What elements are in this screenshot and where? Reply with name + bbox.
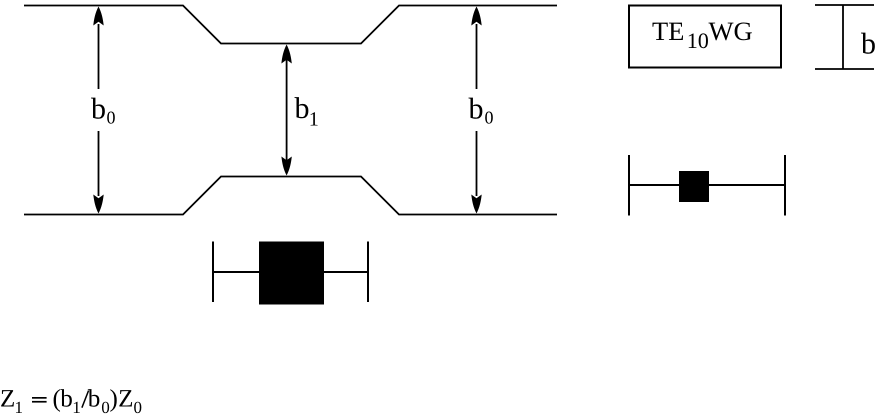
arrowhead up: [93, 7, 103, 26]
label b0 right: letter b: [469, 98, 483, 119]
wire right: [324, 271, 368, 273]
arrowhead down: [93, 195, 103, 214]
wire bottom waveguide wall profile: [24, 177, 557, 215]
equation glyph Z (Z0): [119, 390, 132, 406]
equation glyph b (denominator): [88, 389, 100, 407]
wire left: [213, 271, 259, 273]
arrowhead down: [471, 195, 481, 214]
series element black box small: [679, 171, 709, 202]
arrowhead down: [281, 157, 291, 176]
top wall tick: [815, 4, 874, 6]
terminal bar right: [784, 155, 786, 216]
bottom wall tick: [815, 68, 874, 70]
wire left: [629, 184, 679, 186]
arrowhead up: [471, 7, 481, 26]
label b (height): [861, 33, 875, 54]
arrow shaft lower segment: [98, 131, 100, 196]
wire top waveguide wall profile: [24, 6, 557, 44]
equation subscript 0 (denominator): [102, 402, 109, 413]
arrow shaft upper segment: [98, 24, 100, 89]
label TE10WG: subscript 10: [689, 33, 708, 48]
dimension arrow b1 middle: [281, 45, 291, 176]
label TE10WG: letters WG: [709, 22, 752, 40]
height line b: [842, 5, 844, 69]
terminal bar left: [628, 155, 630, 216]
label b1: subscript 1: [311, 112, 318, 125]
equation Z1 = (b1/b0)Z0: [1, 389, 141, 413]
arrow shaft upper segment: [476, 24, 478, 89]
terminal bar right: [367, 242, 369, 303]
terminal bar left: [212, 242, 214, 303]
arrow shaft: [286, 58, 288, 162]
equation division slash: [82, 391, 89, 408]
TE10 WG box: [629, 6, 781, 68]
label b0 left: letter b: [91, 98, 105, 119]
wire right: [709, 184, 785, 186]
equivalent-circuit element 1 (series block) below profile: [213, 242, 368, 305]
equation glyph Z: [1, 390, 14, 406]
dimension arrow b0 left: [93, 7, 103, 214]
equation close parenthesis: [110, 389, 116, 412]
label b0 right: subscript 0: [485, 112, 493, 124]
equation equals sign: [32, 397, 47, 399]
label b0 left: subscript 0: [107, 112, 115, 124]
dimension arrow b0 right: [471, 7, 481, 214]
equation subscript 0 (Z0): [134, 402, 141, 413]
label TE10WG: letters TE: [652, 23, 683, 40]
equation subscript 1 (numerator): [74, 402, 80, 413]
equation glyph b (numerator): [60, 389, 72, 407]
arrow shaft lower segment: [476, 131, 478, 196]
equation open parenthesis: [54, 389, 60, 412]
equation subscript 1: [16, 402, 22, 413]
series element black box: [259, 242, 324, 305]
label b1: letter b: [295, 97, 309, 118]
waveguide height symbol (I-beam) right edge: [815, 5, 874, 69]
equivalent-circuit element 2 (small series block) right: [629, 155, 785, 216]
arrowhead up: [281, 45, 291, 64]
